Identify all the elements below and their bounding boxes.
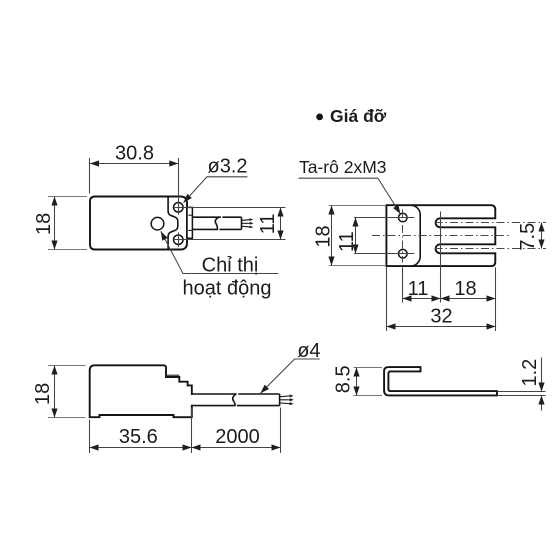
svg-text:11: 11 <box>408 278 429 300</box>
svg-text:35.6: 35.6 <box>119 426 158 448</box>
svg-text:18: 18 <box>454 278 476 300</box>
svg-text:32: 32 <box>430 305 452 327</box>
svg-text:2000: 2000 <box>215 426 260 448</box>
svg-text:8.5: 8.5 <box>333 365 355 393</box>
svg-text:1.2: 1.2 <box>519 359 541 387</box>
svg-text:Ta-rô 2xM3: Ta-rô 2xM3 <box>299 157 387 177</box>
svg-text:18: 18 <box>33 213 55 235</box>
svg-text:11: 11 <box>336 231 358 252</box>
svg-text:11: 11 <box>257 214 279 235</box>
svg-text:18: 18 <box>32 383 54 405</box>
svg-text:Giá đỡ: Giá đỡ <box>330 106 387 126</box>
svg-text:18: 18 <box>312 225 334 247</box>
svg-text:ø3.2: ø3.2 <box>208 156 248 178</box>
svg-text:hoạt động: hoạt động <box>183 277 272 299</box>
svg-text:30.8: 30.8 <box>115 143 154 165</box>
svg-text:7.5: 7.5 <box>517 223 539 251</box>
svg-text:Chỉ thị: Chỉ thị <box>202 254 259 276</box>
